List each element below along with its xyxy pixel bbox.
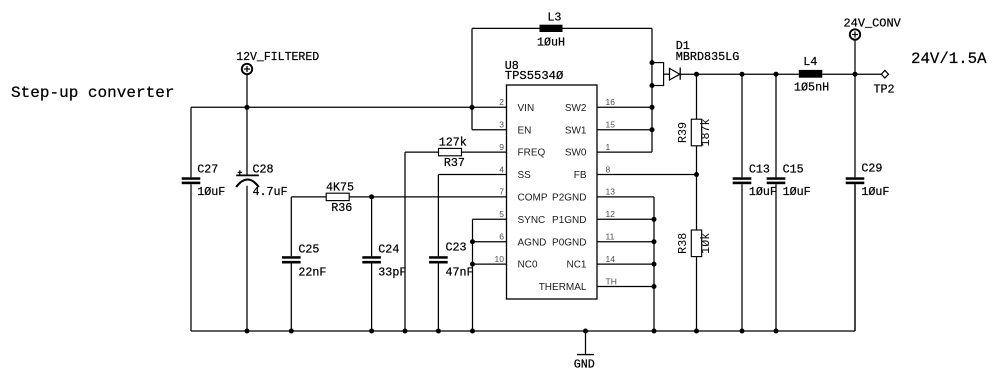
wire SYNC pin stub [473,218,507,220]
svg-text:R38: R38 [676,233,690,254]
capacitor C15 [767,74,786,331]
capacitor C29 [846,74,865,331]
U8 right pin number 1 [606,142,611,152]
label R39 value 187k [699,118,713,146]
svg-text:EN: EN [518,125,532,136]
node junction bottom rail C24 [369,329,374,334]
wire THERMAL pin stub [597,286,654,288]
svg-text:12V_FILTERED: 12V_FILTERED [236,50,319,64]
wire PGND vertical [653,197,655,331]
svg-text:C28: C28 [253,163,274,177]
label R38 value 10k [699,233,713,254]
svg-text:P0GND: P0GND [552,237,586,248]
U8 left pin number 7 [499,187,504,197]
U8 left pin 5 SYNC name [518,215,546,226]
wire EN horizontal [472,129,507,131]
svg-text:R36: R36 [331,201,352,215]
capacitor C23 [429,175,448,332]
label R39 [676,122,690,143]
wire SW1 pin stub [597,129,652,131]
label L3 value 10uH [537,36,565,50]
capacitor C28 (polarized) [236,107,259,331]
label L4 value 105nH [794,81,829,95]
wire R36 left lead [291,196,326,198]
node junction R39 top [694,72,699,77]
label C23 [446,241,467,255]
label D1 [676,39,690,53]
diode D1 symbol [664,68,681,81]
node junction FB divider [694,172,699,177]
svg-text:9: 9 [499,142,504,152]
node junction bottom rail SYNC gnd [470,329,475,334]
wire C29 branch vertical end [854,184,856,331]
svg-text:P2GND: P2GND [552,193,586,204]
node junction bottom rail C28 [245,329,250,334]
svg-text:C25: C25 [298,242,319,256]
label GND [574,357,595,371]
svg-text:127k: 127k [439,135,467,149]
U8 left pin 2 VIN name [518,103,535,114]
ground symbol [577,331,594,355]
svg-text:FREQ: FREQ [518,148,546,159]
wire AGND pin stub [473,241,507,243]
wire R37 ground vertical [404,152,406,331]
wire 24V rail (L4 to TP2) [822,73,881,75]
node junction SW1 [650,127,655,132]
node junction C24 top [369,194,374,199]
wire SS pin stub [438,174,506,176]
U8 left pin number 5 [499,209,504,219]
U8 left pin 10 NC0 name [518,260,538,271]
svg-text:TPS5534Ø: TPS5534Ø [505,69,564,83]
node junction C15 top [774,72,779,77]
wire SW2 pin stub [597,106,652,108]
wire R37 left lead [405,151,439,153]
U8 right pin number 11 [606,232,615,242]
wire R39 bottom lead [696,146,698,175]
label R37 [444,156,465,170]
node junction NC0 [470,262,475,267]
node junction 24V_CONV [853,72,858,77]
label C15 [783,163,804,177]
svg-text:Step-up converter: Step-up converter [11,84,174,102]
svg-text:C13: C13 [749,163,770,177]
label C13 [749,163,770,177]
svg-text:C27: C27 [197,163,218,177]
U8 left pin 4 SS name [518,170,532,181]
svg-text:SW0: SW0 [565,148,587,159]
svg-text:1ØuF: 1ØuF [197,185,225,199]
svg-text:L3: L3 [547,10,561,24]
wire R37 right lead to FREQ [462,151,507,153]
svg-text:NC1: NC1 [566,260,586,271]
U8 right pin TH THERMAL name [539,282,587,293]
capacitor C25 [282,197,301,331]
svg-text:16: 16 [606,97,616,107]
node junction P1GND [652,217,657,222]
svg-text:TP2: TP2 [874,82,895,96]
label C28 [253,163,274,177]
node junction bottom rail C25 [289,329,294,334]
svg-text:13: 13 [606,187,616,197]
U8 right pin 12 P1GND name [552,215,586,226]
label C25 [298,242,319,256]
node junction bottom rail R38 [694,329,699,334]
wire R38 top lead [696,175,698,231]
U8 left pin number 4 [499,164,504,174]
node junction bottom rail GND symbol [583,329,588,334]
resistor R37 [439,148,462,155]
U8 left pin number 9 [499,142,504,152]
label R36 value 4K75 [326,180,354,194]
diode D1 anode tab box [652,63,664,86]
node junction AGND [470,239,475,244]
U8 left pin number 2 [499,97,504,107]
svg-text:TH: TH [606,276,617,286]
svg-text:47nF: 47nF [446,266,474,280]
node junction THERMAL [652,284,657,289]
label C29 value 10uF [861,185,889,199]
node junction D1 anode top [650,60,655,65]
label C24 [378,242,399,256]
node junction bottom rail C13 [740,329,745,334]
svg-text:187k: 187k [699,118,713,146]
U8 right pin 8 FB name [574,170,587,181]
capacitor C13 [733,74,752,331]
label 12V_FILTERED [236,50,319,64]
node junction L3/EN on VIN rail [470,105,475,110]
svg-text:4: 4 [499,164,504,174]
wire R39 top lead [696,74,698,119]
svg-text:24V_CONV: 24V_CONV [844,17,901,31]
svg-text:SS: SS [518,170,532,181]
svg-text:MBRD835LG: MBRD835LG [676,50,740,64]
svg-text:C23: C23 [446,241,467,255]
label C28 value 4.7uF [253,185,288,199]
wire P0GND pin stub [597,241,654,243]
node junction C13 top [740,72,745,77]
power flag 24V_CONV [850,29,860,39]
svg-text:COMP: COMP [518,193,548,204]
svg-text:SW1: SW1 [565,125,587,136]
label C27 value 10uF [197,185,225,199]
resistor R36 [326,193,349,200]
resistor R39 [691,119,701,146]
U8 right pin number 15 [606,120,616,130]
U8 right pin 1 SW0 name [565,148,587,159]
svg-text:5: 5 [499,209,504,219]
capacitor C24 [362,197,381,331]
node junction 12V on VIN rail [245,105,250,110]
svg-text:6: 6 [499,232,504,242]
wire NC1 pin stub [597,263,654,265]
svg-text:2: 2 [499,97,504,107]
node junction D1 anode bottom [650,83,655,88]
U8 right pin number 8 [606,164,611,174]
label R38 [676,233,690,254]
node junction bottom rail C15 [774,329,779,334]
U8 right pin number TH [606,276,617,286]
node junction P0GND [652,239,657,244]
svg-text:VIN: VIN [518,103,535,114]
label L3 [547,10,561,24]
svg-text:33pF: 33pF [378,266,406,280]
svg-text:C24: C24 [378,242,399,256]
U8 right pin number 13 [606,187,616,197]
label 24V_CONV [844,17,901,31]
wire L3 left vertical (VIN to top) [471,28,473,129]
svg-text:SW2: SW2 [565,103,587,114]
label C25 value 22nF [298,266,326,280]
resistor R38 [691,230,701,257]
svg-text:AGND: AGND [518,237,547,248]
U8 right pin 13 P2GND name [552,193,586,204]
wire NC0 pin stub [473,263,507,265]
svg-text:NC0: NC0 [518,260,538,271]
svg-text:1ØuF: 1ØuF [749,185,777,199]
node junction bottom rail C23 [436,329,441,334]
U8 left pin 6 AGND name [518,237,547,248]
power flag 12V_FILTERED [242,64,252,74]
label R37 value 127k [439,135,467,149]
wire bottom ground rail [191,330,855,332]
label C23 value 47nF [446,266,474,280]
test point TP2 diamond [881,70,888,78]
U8 left pin number 3 [499,120,504,130]
svg-text:FB: FB [574,170,587,181]
wire FB pin stub [597,174,697,176]
svg-text:GND: GND [574,357,595,371]
U8 right pin 15 SW1 name [565,125,587,136]
wire SW0 pin stub [597,151,652,153]
wire 24V rail (cathode to L4) [680,73,799,75]
U8 value label [505,69,564,83]
svg-text:15: 15 [606,120,616,130]
label TP2 [874,82,895,96]
label C15 value 10uF [783,185,811,199]
wire left branch vertical to C27 [190,107,192,177]
wire 12V flag stem [246,74,248,107]
svg-text:THERMAL: THERMAL [539,282,587,293]
svg-text:3: 3 [499,120,504,130]
node junction bottom rail PGND [652,329,657,334]
wire top left segment [472,27,540,29]
svg-text:SYNC: SYNC [518,215,546,226]
inductor L4 [799,70,823,78]
U8 left pin 3 EN name [518,125,532,136]
svg-text:1Ø5nH: 1Ø5nH [794,81,829,95]
svg-text:1: 1 [606,142,611,152]
U8 reference label [505,59,519,73]
svg-text:4.7uF: 4.7uF [253,185,288,199]
label R36 [331,201,352,215]
label C13 value 10uF [749,185,777,199]
wire VIN rail [191,106,507,108]
U8 right pin number 12 [606,209,616,219]
svg-text:8: 8 [606,164,611,174]
node junction NC1 [652,262,657,267]
wire P1GND pin stub [597,218,654,220]
node junction bottom rail R37 gnd [403,329,408,334]
wire top right segment [563,27,653,29]
node junction SW2 [650,105,655,110]
svg-text:1Øk: 1Øk [699,233,713,254]
U8 right pin number 14 [606,254,616,264]
U8 left pin number 6 [499,232,504,242]
svg-text:C15: C15 [783,163,804,177]
wire R38 bottom lead [696,257,698,331]
svg-text:R37: R37 [444,156,465,170]
U8 left pin 7 COMP name [518,193,548,204]
label C27 [197,163,218,177]
U8 left pin number 10 [495,254,505,264]
label D1 value MBRD835LG [676,50,740,64]
U8 right pin 14 NC1 name [566,260,586,271]
svg-text:12: 12 [606,209,616,219]
label output rating 24V/1.5A [911,50,987,68]
svg-text:R39: R39 [676,122,690,143]
svg-text:14: 14 [606,254,616,264]
wire COMP line (R36 right to COMP pin) [349,196,506,198]
svg-text:L4: L4 [803,55,817,69]
svg-text:7: 7 [499,187,504,197]
svg-text:C29: C29 [861,162,882,176]
U8 left pin 9 FREQ name [518,148,546,159]
label L4 [803,55,817,69]
U8 right pin 16 SW2 name [565,103,587,114]
wire 24V flag stem [854,40,856,74]
capacitor C27 [182,177,201,331]
svg-text:10: 10 [495,254,505,264]
svg-text:P1GND: P1GND [552,215,586,226]
label C29 [861,162,882,176]
svg-text:1ØuF: 1ØuF [861,185,889,199]
svg-text:24V/1.5A: 24V/1.5A [911,50,987,68]
svg-text:1ØuH: 1ØuH [537,36,565,50]
op-amp U8 IC body TPS55340 [507,85,598,299]
U8 right pin 11 P0GND name [552,237,586,248]
label C24 value 33pF [378,266,406,280]
wire SYNC ground vertical [472,219,474,331]
svg-text:22nF: 22nF [298,266,326,280]
inductor L3 [540,25,563,32]
wire P2GND pin stub [597,196,654,198]
svg-text:4K75: 4K75 [326,180,354,194]
wire SW vertical [651,28,653,152]
svg-text:1ØuF: 1ØuF [783,185,811,199]
title text [11,84,174,102]
U8 right pin number 16 [606,97,616,107]
svg-text:11: 11 [606,232,615,242]
